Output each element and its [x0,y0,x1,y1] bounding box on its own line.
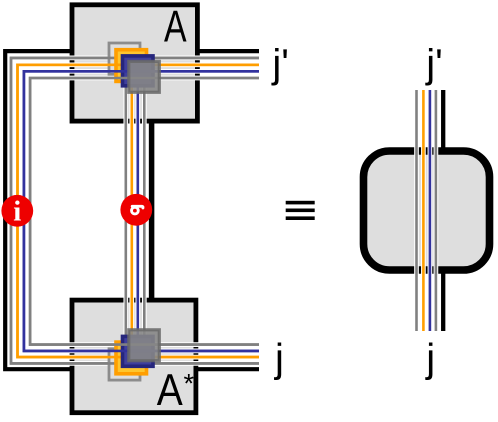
svg-text:j': j' [425,42,443,86]
orange square in A [116,50,147,82]
gray filled square in A* [129,330,160,361]
svg-text:A: A [164,2,187,51]
equivalence symbol [286,201,315,220]
center vertical thin wires halos [126,66,145,356]
blue square in A* [123,336,154,366]
wire halos: outer gray loop, orange loop, blue loop, inner gray loop (under squares) [11,58,259,364]
blue square in A [123,56,154,86]
wire: orange loop (color redraw over orange squares) [18,65,260,357]
tensor box A* [72,300,196,413]
rounded tensor box (right diagram) [364,151,490,270]
wire: blue loop (color redraw over blue squares) [24,71,259,351]
center vertical thin wires [125,66,128,356]
svg-text:j': j' [271,42,289,86]
node sigma (red circle) [120,194,152,226]
right diagram vertical thin wires halos [417,90,436,331]
svg-text:*: * [184,369,195,399]
gray filled square in A [129,61,160,92]
svg-text:i: i [13,195,21,227]
wire: inner gray loop (color redraw over blue squares) [30,78,259,345]
svg-text:A: A [157,366,183,415]
wire: thick black bond between A and A* [149,120,155,303]
svg-text:j: j [425,337,435,381]
wire: black loop (left diagram, under boxes) [5,51,259,369]
orange square in A* [116,342,147,374]
tensor box A [72,5,197,121]
wire: outer gray loop (color redraw over gray squares) [11,58,259,364]
svg-text:j: j [274,337,284,381]
wire: black vertical (right diagram, under rounded box) [441,90,445,331]
node i (red circle) [1,195,33,227]
gray outlined square in A [109,43,140,74]
right diagram vertical thin wires [415,90,418,331]
gray outlined square in A* [109,349,140,380]
wire colors first pass (under squares) [11,58,259,364]
